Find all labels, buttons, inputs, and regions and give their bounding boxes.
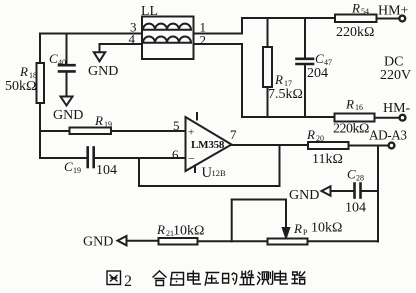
svg-text:R: R xyxy=(156,222,165,237)
value 10kΩ RP xyxy=(311,221,342,236)
svg-text:GND: GND xyxy=(53,108,83,123)
op-amp power tick top xyxy=(196,113,198,120)
wire C47 bottom xyxy=(304,65,306,117)
pin label 1 xyxy=(200,20,207,35)
wire R16 to HM- terminal xyxy=(375,117,400,119)
svg-text:+: + xyxy=(188,127,194,139)
value 104 C19 xyxy=(96,163,117,178)
value 11kΩ xyxy=(312,152,343,167)
char 测 xyxy=(257,271,272,284)
char 电 second xyxy=(275,271,288,284)
label R54 xyxy=(351,1,369,17)
svg-text:GND: GND xyxy=(88,64,118,79)
label C47 xyxy=(315,51,332,67)
label R18 xyxy=(19,64,37,80)
wire pin 2 to bottom rail xyxy=(194,44,243,117)
wire right vertical R20 to RP xyxy=(377,146,379,242)
svg-text:R: R xyxy=(293,221,302,236)
wire C40 top vertical xyxy=(66,34,68,65)
svg-text:104: 104 xyxy=(96,163,117,178)
svg-text:AD-A3: AD-A3 xyxy=(369,128,407,143)
wire output pin 7 to R20 xyxy=(232,144,309,146)
label R21 xyxy=(156,222,174,238)
char 2 xyxy=(124,273,132,290)
char 电 xyxy=(188,271,201,284)
op-amp power tick bottom xyxy=(194,166,196,173)
wire R54 to HM+ terminal xyxy=(377,18,400,20)
svg-text:2: 2 xyxy=(124,273,132,290)
svg-text:C: C xyxy=(64,159,73,174)
label U12B xyxy=(202,165,227,181)
wire R19 to pin 5 xyxy=(111,130,186,132)
char 路 xyxy=(292,272,305,284)
capacitor C28 xyxy=(355,184,361,198)
svg-text:R: R xyxy=(94,113,103,128)
svg-text:C: C xyxy=(49,51,58,66)
svg-text:10kΩ: 10kΩ xyxy=(173,224,204,239)
wire C40 to ground xyxy=(66,73,68,97)
svg-text:GND: GND xyxy=(289,188,319,203)
resistor R17 xyxy=(263,47,272,87)
label LM358 xyxy=(191,139,225,151)
svg-text:10kΩ: 10kΩ xyxy=(311,221,342,236)
wire top rail to R54 xyxy=(242,17,335,19)
op-amp minus sign xyxy=(188,152,195,166)
value 7.5kΩ xyxy=(268,87,303,102)
potentiometer RP xyxy=(268,239,308,245)
wire R18 bottom to C19 corner xyxy=(39,103,41,158)
svg-text:204: 204 xyxy=(307,66,328,81)
svg-text:HM-: HM- xyxy=(383,101,411,116)
wiper arrow RP xyxy=(283,228,289,238)
svg-text:C: C xyxy=(347,167,356,182)
svg-text:−: − xyxy=(188,152,195,166)
terminal AD-A3 xyxy=(389,143,395,149)
label AD-A3 xyxy=(369,128,407,143)
wire R17 bottom xyxy=(267,87,269,117)
wire C19 to pin 6 xyxy=(95,157,186,159)
pin label 7 xyxy=(230,127,237,142)
label R17 xyxy=(274,72,292,88)
svg-text:R: R xyxy=(345,97,354,112)
wire wiper loop top xyxy=(232,199,286,201)
svg-text:LM358: LM358 xyxy=(191,139,225,151)
value 220kΩ R16 xyxy=(333,122,369,137)
wire R18 top vertical xyxy=(39,34,41,64)
label R19 xyxy=(94,113,112,129)
svg-text:220kΩ: 220kΩ xyxy=(333,122,369,137)
svg-text:R: R xyxy=(306,127,315,142)
wire R19 left xyxy=(40,130,70,132)
svg-text:2: 2 xyxy=(200,33,207,48)
wire pin 1 to top rail xyxy=(194,18,243,34)
resistor R18 xyxy=(37,63,45,103)
label C28 xyxy=(347,167,364,183)
svg-text:220kΩ: 220kΩ xyxy=(336,25,374,40)
resistor R19 xyxy=(70,128,112,135)
wire pin 4 to ground corner xyxy=(100,44,143,52)
label HM+ xyxy=(378,4,409,19)
svg-text:54: 54 xyxy=(361,7,369,16)
resistor R16 xyxy=(335,114,375,122)
label RP xyxy=(293,221,308,237)
wire top-left horizontal node to pin 3 xyxy=(40,33,142,35)
svg-text:28: 28 xyxy=(356,174,364,183)
svg-text:HM+: HM+ xyxy=(378,4,409,19)
wire C28 left to ground arrow xyxy=(327,190,353,192)
char 图 xyxy=(107,271,121,285)
svg-text:11kΩ: 11kΩ xyxy=(312,152,343,167)
svg-text:5: 5 xyxy=(173,118,180,133)
svg-text:19: 19 xyxy=(73,166,81,175)
pin label 2 xyxy=(200,33,207,48)
svg-text:C: C xyxy=(315,51,324,66)
wire C47 top xyxy=(304,18,306,58)
ground arrow under C40 xyxy=(61,97,73,106)
resistor R54 xyxy=(335,15,377,23)
svg-text:P: P xyxy=(303,228,308,237)
wire feedback up to output xyxy=(279,145,281,186)
label R20 xyxy=(306,127,324,143)
op-amp U12B triangle xyxy=(186,117,232,171)
label LL xyxy=(141,4,158,19)
inductor LL bottom winding xyxy=(143,37,191,43)
inductor LL box xyxy=(142,17,194,60)
capacitor C19 xyxy=(88,148,94,168)
label R16 xyxy=(345,97,363,113)
char 母 xyxy=(171,273,184,286)
label GND at R21 xyxy=(83,235,113,250)
value 220kΩ R54 xyxy=(336,25,374,40)
label GND under C40 xyxy=(53,108,83,123)
wire feedback horizontal xyxy=(139,185,280,187)
wire C19 left xyxy=(40,157,87,159)
svg-text:16: 16 xyxy=(355,103,363,112)
label C40 xyxy=(49,51,66,67)
wire wiper vertical xyxy=(285,200,287,230)
label DC 220V xyxy=(380,55,411,84)
svg-text:6: 6 xyxy=(172,147,179,162)
svg-text:GND: GND xyxy=(83,235,113,250)
resistor R20 xyxy=(308,142,349,149)
svg-text:R: R xyxy=(351,1,360,16)
terminal HM- xyxy=(400,115,406,121)
char 合 xyxy=(153,271,166,286)
value 104 C28 xyxy=(345,201,366,216)
svg-text:R: R xyxy=(274,72,283,87)
label C19 xyxy=(64,159,81,175)
inductor LL top winding xyxy=(143,24,191,30)
svg-text:7.5kΩ: 7.5kΩ xyxy=(268,87,303,102)
resistor R21 xyxy=(159,238,198,245)
label GND at C28 xyxy=(289,188,319,203)
wire ground arrow to R21 xyxy=(127,240,159,242)
capacitor C47 xyxy=(297,59,314,64)
ground arrow left C28 xyxy=(322,186,331,195)
op-amp plus sign xyxy=(188,127,194,139)
svg-text:104: 104 xyxy=(345,201,366,216)
wire bottom rail to R16 xyxy=(242,116,335,118)
caption 图 2 合母电压的监测电路 xyxy=(107,271,305,290)
value 204 xyxy=(307,66,328,81)
svg-text:50kΩ: 50kΩ xyxy=(5,79,36,94)
ground arrow under pin 4 xyxy=(94,52,105,61)
terminal HM+ xyxy=(399,16,405,22)
svg-text:4: 4 xyxy=(129,32,136,47)
char 的 xyxy=(223,273,237,284)
wire wiper loop left vertical xyxy=(231,200,233,242)
wire R20 to AD-A3 terminal xyxy=(349,145,389,147)
svg-text:20: 20 xyxy=(316,134,324,143)
pin label 5 xyxy=(173,118,180,133)
pin label 6 xyxy=(172,147,179,162)
wire RP right xyxy=(308,240,379,242)
wire feedback down from pin 6 node xyxy=(138,158,140,186)
char 压 xyxy=(205,273,219,286)
svg-text:7: 7 xyxy=(230,127,237,142)
wire C28 right xyxy=(362,190,378,192)
capacitor C40 xyxy=(59,65,75,71)
ground arrow left R21 xyxy=(118,236,127,245)
svg-text:R: R xyxy=(19,64,28,79)
wire R17 top xyxy=(267,18,269,47)
pin label 4 xyxy=(129,32,136,47)
svg-text:19: 19 xyxy=(104,120,112,129)
value 50kΩ xyxy=(5,79,36,94)
wire R21 to RP xyxy=(198,240,268,242)
pin label 3 xyxy=(130,20,137,35)
svg-text:220V: 220V xyxy=(380,68,411,83)
svg-text:12B: 12B xyxy=(212,168,227,178)
svg-text:40: 40 xyxy=(58,58,66,67)
value 10kΩ R21 xyxy=(173,224,204,239)
label HM- xyxy=(383,101,411,116)
char 监 xyxy=(240,271,254,285)
label GND under pin 4 xyxy=(88,64,118,79)
